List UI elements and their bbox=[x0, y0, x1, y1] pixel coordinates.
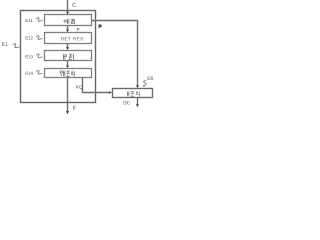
leader squiggle for E14 bbox=[36, 70, 42, 74]
label E1 bbox=[2, 42, 8, 46]
label E12 bbox=[26, 36, 33, 39]
pseudo-glyph text (prediction) in E11 bbox=[64, 19, 75, 24]
wire KQ branch from E14 to E6 bbox=[83, 78, 111, 93]
wire E11 to E12 (P) bbox=[67, 26, 69, 32]
block E1 (outer encoder box) bbox=[21, 11, 96, 103]
label E bbox=[73, 106, 76, 109]
label E13 bbox=[26, 55, 33, 58]
wire E14 output down to E (exits E1) bbox=[67, 78, 69, 114]
pseudo-glyph text (transform) in E13 bbox=[63, 54, 73, 60]
label E11 bbox=[26, 19, 33, 22]
pseudo-glyph text (quantization) in E14 bbox=[60, 71, 74, 77]
label P bbox=[77, 28, 79, 31]
leader squiggle for E11 bbox=[36, 18, 42, 22]
label E14 bbox=[26, 72, 33, 75]
leader squiggle for E1 bbox=[13, 44, 19, 48]
label E6 bbox=[148, 76, 153, 80]
wire P feedback from E11 to E6 bbox=[92, 21, 138, 88]
block E12 (DET RES box) bbox=[45, 33, 92, 44]
label DC bbox=[124, 101, 130, 104]
block E6 (multiplexer box) bbox=[113, 89, 153, 98]
pseudo-glyph text (multiplexing) in E6 bbox=[127, 91, 139, 96]
value label DET RES bbox=[61, 37, 83, 40]
leader squiggle for E13 bbox=[36, 54, 42, 58]
block E11 (prediction box) bbox=[45, 15, 92, 26]
leader squiggle for E12 bbox=[36, 36, 42, 40]
wire DC output bbox=[137, 98, 139, 107]
leader squiggle for E6 bbox=[143, 81, 146, 87]
wire E12 to E13 bbox=[67, 44, 69, 50]
wire E13 to E14 bbox=[67, 61, 69, 68]
label KQ bbox=[76, 85, 82, 89]
background bbox=[0, 0, 158, 120]
wire C input bbox=[67, 0, 69, 14]
label P on feedback wire bbox=[99, 24, 102, 28]
block E14 (quantization box) bbox=[45, 69, 92, 78]
label C bbox=[72, 3, 76, 7]
block E13 (transform box) bbox=[45, 51, 92, 61]
